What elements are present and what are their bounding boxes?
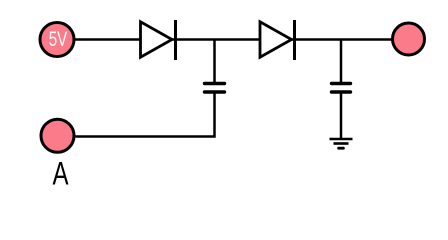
- svg-text:5V: 5V: [49, 27, 68, 51]
- svg-text:A: A: [52, 155, 68, 191]
